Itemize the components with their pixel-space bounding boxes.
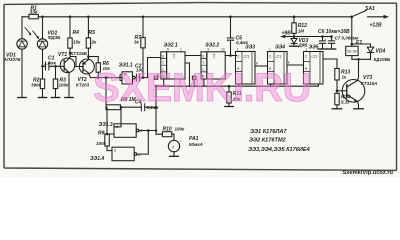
wire DD3 R riser — [238, 84, 240, 86]
junction (294,16.8) — [293, 15, 296, 18]
counter DD3 — [236, 52, 256, 85]
svg-text:+: + — [325, 38, 327, 42]
svg-text:VD4: VD4 — [376, 49, 386, 55]
junction (107,134) — [106, 133, 109, 136]
junction (88.4,56.5) — [87, 55, 90, 58]
junction (322.5,36.5) — [321, 35, 324, 38]
svg-text:13: 13 — [221, 48, 225, 52]
ground — [18, 97, 26, 99]
svg-text:390к: 390к — [31, 83, 42, 88]
svg-text:ЭЭ2 К176ТМ2: ЭЭ2 К176ТМ2 — [249, 138, 287, 144]
transistor VT2 — [79, 59, 94, 74]
svg-text:Т: Т — [173, 55, 176, 61]
junction (351.8,44) — [351, 43, 354, 46]
svg-text:3к: 3к — [134, 40, 140, 45]
junction (337,90.8) — [336, 90, 339, 93]
junction (230.5,16.8) — [229, 15, 232, 18]
junction (230.5,55.5) — [229, 54, 232, 57]
junction (98.2,77.6) — [97, 76, 100, 79]
svg-text:СБ-1М: СБ-1М — [347, 50, 357, 54]
LED VD1 — [17, 39, 27, 49]
resistor R13 — [335, 69, 339, 81]
svg-text:1: 1 — [269, 48, 271, 52]
svg-text:SxemkiVip.ucoz.ru: SxemkiVip.ucoz.ru — [343, 170, 394, 176]
svg-text:S: S — [162, 55, 164, 59]
gate DD1.4 — [107, 150, 112, 152]
svg-text:S: S — [202, 55, 204, 59]
wire VT2 out to DD1.1 — [91, 75, 123, 81]
svg-text:КТ315Б: КТ315Б — [71, 51, 88, 56]
svg-text:ЭЭ5: ЭЭ5 — [309, 45, 319, 51]
junction (106,77.6) — [105, 76, 108, 79]
junction (148.3,130.5) — [147, 129, 150, 132]
svg-text:ЭЭ4: ЭЭ4 — [275, 45, 285, 51]
ground — [51, 97, 59, 99]
junction (42.5,16.8) — [41, 15, 44, 18]
svg-text:ФД3Б: ФД3Б — [48, 35, 61, 40]
wire DD3 C in — [236, 55, 237, 57]
svg-text:ЭЭ1 К176ЛА7: ЭЭ1 К176ЛА7 — [250, 129, 287, 135]
svg-text:СТ2: СТ2 — [312, 55, 318, 59]
resistor R6 — [97, 57, 99, 63]
svg-text:1,0мк: 1,0мк — [44, 61, 57, 66]
wire DD2.1 R riser — [163, 79, 165, 86]
resistor R14 — [336, 91, 338, 94]
svg-text:КТ315А: КТ315А — [361, 81, 377, 86]
svg-text:С6 10мк×16В: С6 10мк×16В — [318, 29, 350, 35]
resistor R11 — [228, 86, 230, 92]
gate DD1.1 — [122, 72, 133, 84]
junction (70,16.8) — [69, 15, 72, 18]
junction (294,36.5) — [293, 35, 296, 38]
svg-text:1: 1 — [180, 48, 182, 52]
junction (133.8,77.6) — [133, 76, 136, 79]
resistor R1 — [29, 14, 38, 18]
wire +12V bus — [22, 16, 352, 18]
light arrows — [25, 28, 38, 38]
junction (143,16.8) — [142, 15, 145, 18]
resistor R4 — [69, 17, 71, 38]
svg-text:1: 1 — [306, 48, 308, 52]
transistor VT3 — [342, 80, 365, 103]
wire DD2.1 Q out — [185, 55, 201, 57]
ground — [225, 106, 233, 108]
svg-text:0,4мк: 0,4мк — [236, 40, 249, 45]
meter PA1 — [168, 140, 179, 151]
wire +9V rail — [283, 36, 332, 38]
wire VD1 to ground — [21, 49, 23, 97]
svg-text:11: 11 — [138, 153, 142, 157]
svg-text:КД105Б: КД105Б — [374, 57, 392, 62]
svg-text:2к: 2к — [91, 40, 98, 45]
wire VT1 collector to VT2 base — [70, 53, 83, 67]
svg-text:Т: Т — [202, 61, 204, 65]
svg-text:SA1: SA1 — [365, 6, 375, 12]
svg-text:5,1к: 5,1к — [341, 100, 350, 105]
capacitor C2 — [136, 74, 139, 81]
junction (137.5,130.5) — [136, 129, 139, 132]
junction (229,86.2) — [228, 85, 231, 88]
gate DD1.3 — [114, 124, 136, 138]
counter DD4 — [268, 52, 288, 85]
wire VD2 to node A — [42, 49, 44, 66]
transistor VT1 — [60, 58, 75, 73]
wire E1 top rail — [352, 44, 371, 46]
junction (156,130.5) — [155, 129, 158, 132]
svg-text:100к: 100к — [59, 83, 70, 88]
resistor R7 — [142, 17, 144, 38]
capacitor C1 — [46, 63, 49, 70]
junction (135.5,154.1) — [134, 153, 137, 156]
ground — [318, 48, 326, 50]
junction (70,53) — [69, 52, 72, 55]
resistor R10 — [162, 132, 171, 137]
svg-text:SXEMKI.RU: SXEMKI.RU — [93, 66, 311, 110]
capacitor C7 — [328, 37, 334, 49]
ground — [327, 48, 335, 50]
parts list text — [248, 129, 311, 153]
node A wire — [43, 65, 65, 67]
wire C2 to DD2.1 — [139, 58, 160, 78]
wire DD1.4 out cross — [137, 131, 149, 155]
svg-text:1: 1 — [237, 48, 239, 52]
svg-text:100к: 100к — [96, 141, 107, 146]
diode VD4 — [370, 44, 372, 47]
svg-text:5: 5 — [167, 48, 169, 52]
capacitor C5 — [227, 17, 233, 56]
resistor R12 — [293, 17, 295, 23]
ground — [354, 108, 364, 110]
wire DD4 carry to DD5 — [287, 64, 304, 66]
wire E1 bottom rail — [352, 58, 371, 60]
junction (358.5,59.3) — [357, 58, 360, 61]
svg-text:33к: 33к — [30, 9, 39, 15]
wire DD3 carry to DD4 — [255, 65, 268, 67]
wire DD2.1 Qbar stub — [185, 63, 190, 86]
svg-text:R10: R10 — [163, 127, 172, 133]
svg-text:ЭЭ2.1: ЭЭ2.1 — [164, 43, 178, 49]
wire DD2.2 out — [225, 55, 236, 57]
resistor R5 — [87, 17, 89, 38]
junction (121,107.2) — [120, 106, 123, 109]
svg-text:1к: 1к — [342, 75, 348, 80]
svg-text:+12В: +12В — [370, 22, 382, 28]
svg-text:9: 9 — [208, 48, 210, 52]
sounder E1 — [346, 46, 358, 55]
junction (88.4,16.8) — [87, 15, 90, 18]
svg-text:50мкА: 50мкА — [189, 142, 203, 147]
wire out to meter — [156, 134, 174, 140]
svg-text:ЭЭ3,ЭЭ4,ЭЭ5 К176ИЕ4: ЭЭ3,ЭЭ4,ЭЭ5 К176ИЕ4 — [248, 147, 311, 153]
svg-text:АЛ107Б: АЛ107Б — [3, 57, 22, 62]
svg-text:R9: R9 — [98, 131, 105, 137]
capacitor C6 — [319, 37, 325, 49]
wire arrow +12V — [368, 16, 385, 18]
svg-text:R5: R5 — [89, 30, 96, 36]
svg-text:Е1: Е1 — [356, 40, 362, 46]
svg-text:СТ2: СТ2 — [276, 55, 282, 59]
ground — [65, 97, 73, 99]
svg-text:+: + — [180, 140, 182, 144]
svg-text:Т: Т — [213, 55, 216, 61]
svg-text:ЭЭ3: ЭЭ3 — [245, 45, 255, 51]
wire riser to reset line — [155, 86, 157, 134]
diode VD3 — [293, 37, 295, 39]
resistor R9 — [105, 134, 110, 146]
wire DD5 out to R13 — [323, 59, 337, 69]
wire R5 node — [88, 56, 98, 58]
photodiode VD2 — [37, 39, 47, 49]
wire reset line — [156, 84, 318, 86]
svg-text:ЭЭ1.4: ЭЭ1.4 — [90, 156, 104, 162]
wire DD5 R riser — [306, 84, 308, 86]
ground — [170, 155, 179, 157]
svg-text:R4: R4 — [73, 30, 80, 36]
junction (351.7,16.8) — [350, 15, 353, 18]
junction (55.5,66.3) — [54, 65, 57, 68]
svg-text:Т: Т — [162, 61, 164, 65]
capacitor C4 — [141, 104, 144, 111]
junction (143,77.6) — [142, 76, 145, 79]
svg-text:СТ2: СТ2 — [244, 55, 250, 59]
wire VD1 branch — [21, 17, 23, 39]
ground — [332, 108, 342, 110]
svg-text:ЭЭ1.3: ЭЭ1.3 — [99, 122, 113, 128]
border frame — [4, 3, 397, 171]
svg-text:P: P — [288, 61, 290, 65]
ground — [38, 97, 46, 99]
junction (42.5,66.3) — [41, 65, 44, 68]
wire VD2 branch — [42, 17, 44, 39]
svg-text:+9В: +9В — [282, 31, 292, 37]
junction (331.5,36.5) — [330, 35, 333, 38]
counter DD5 — [304, 52, 324, 85]
svg-text:VT1: VT1 — [58, 52, 67, 58]
svg-text:15к: 15к — [73, 40, 81, 45]
flip-flop DD2.2 — [201, 52, 207, 79]
wire DD2.2 R riser — [203, 79, 205, 86]
resistor R8 — [106, 105, 121, 110]
svg-text:12: 12 — [139, 129, 143, 133]
wire DD4 R riser — [270, 84, 272, 86]
pin square DD2.2 D — [192, 76, 195, 79]
junction (156,107.2) — [155, 106, 158, 109]
wire gate input to multivibrator — [105, 78, 107, 105]
svg-text:100к: 100к — [175, 127, 186, 132]
svg-text:1М: 1М — [298, 29, 305, 34]
switch SA1 — [352, 10, 367, 16]
resistor R3 — [55, 66, 57, 79]
flip-flop DD2.1 — [161, 52, 167, 79]
resistor R2 — [42, 66, 44, 79]
wire E1 branch — [351, 17, 353, 44]
junction (156,86.2) — [155, 85, 158, 88]
multivibrator top wire — [106, 107, 156, 134]
svg-text:КТ203: КТ203 — [76, 83, 90, 88]
wire DD1.3 out — [139, 130, 156, 132]
ground — [290, 45, 299, 47]
